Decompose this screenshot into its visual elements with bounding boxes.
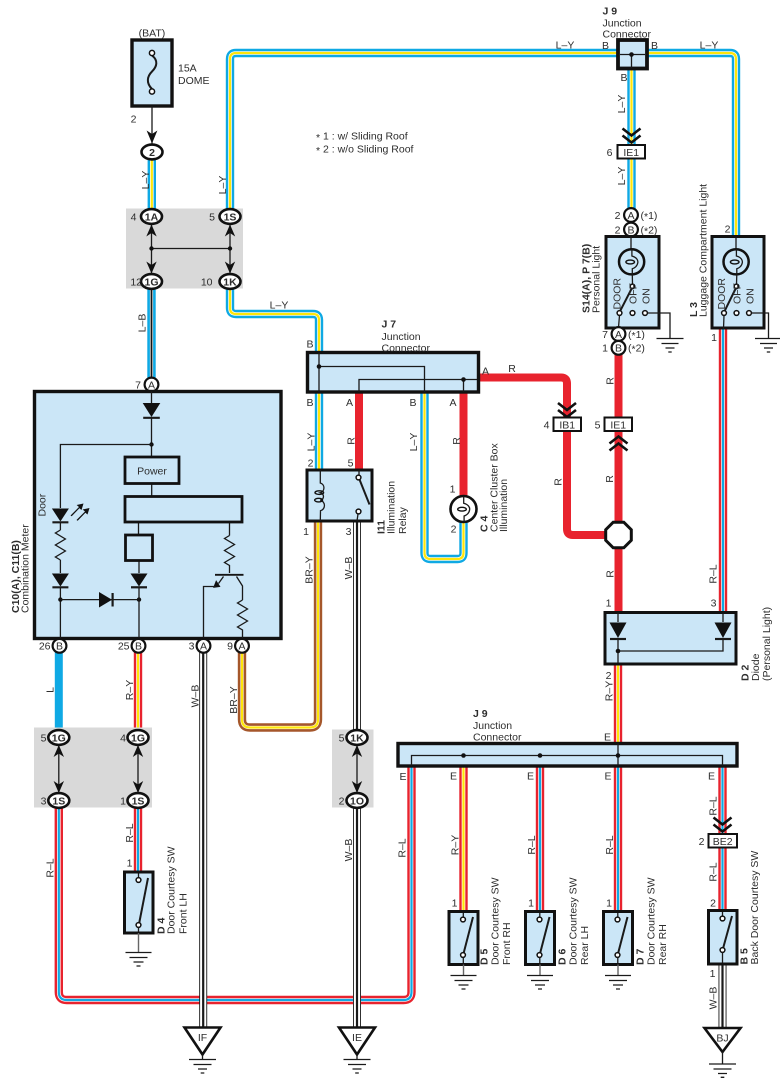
illumination relay I11 box	[307, 470, 372, 521]
wire R-L J9 E to BE2	[722, 765, 724, 834]
svg-text:J 9: J 9	[473, 708, 488, 720]
connector block gray 1A/1S/1G/1K	[126, 209, 243, 289]
svg-text:L–Y: L–Y	[556, 40, 575, 52]
svg-text:(*1): (*1)	[641, 210, 658, 223]
personal light S14 box	[606, 237, 670, 339]
svg-text:* 2 : w/o Sliding Roof: * 2 : w/o Sliding Roof	[316, 144, 414, 158]
svg-text:7: 7	[602, 329, 608, 341]
wire R-L BE2 to B5	[722, 846, 724, 911]
svg-text:1S: 1S	[52, 795, 65, 807]
svg-text:R–Y: R–Y	[124, 680, 136, 700]
WIRES-LAYER	[59, 53, 736, 1028]
svg-text:A: A	[449, 397, 456, 409]
svg-text:A: A	[627, 210, 634, 222]
svg-text:4: 4	[131, 211, 137, 223]
svg-text:5: 5	[339, 732, 345, 744]
ground triangle IF	[185, 1028, 221, 1074]
svg-text:6: 6	[607, 147, 613, 159]
svg-text:R–L: R–L	[708, 862, 720, 881]
terminal 26B meter	[53, 639, 67, 653]
wire R octagon to diode D2 pin1	[618, 547, 620, 613]
svg-text:(*2): (*2)	[641, 224, 658, 237]
svg-text:Combination Meter: Combination Meter	[20, 524, 32, 613]
wire R J7 A to IB1	[480, 378, 567, 419]
svg-text:B: B	[306, 339, 313, 351]
door courtesy switch D5	[449, 912, 478, 990]
terminal 1 1S block2	[128, 793, 149, 808]
terminal 7A personal light	[612, 327, 626, 341]
combination meter box C10 C11	[35, 392, 282, 640]
chevron up below IE1 mid	[610, 437, 628, 451]
connector IE1 top	[618, 145, 646, 159]
terminal 1B personal light	[612, 341, 626, 355]
svg-text:Door: Door	[37, 493, 49, 516]
svg-text:1K: 1K	[350, 732, 364, 744]
svg-text:B: B	[306, 397, 313, 409]
svg-text:R–L: R–L	[124, 823, 136, 842]
svg-text:R–L: R–L	[604, 835, 616, 854]
terminal 3A meter	[197, 639, 211, 653]
svg-text:E: E	[604, 771, 611, 783]
terminal 5 1G block2	[48, 730, 69, 745]
svg-text:1K: 1K	[223, 276, 237, 288]
svg-text:A: A	[148, 379, 155, 391]
terminal 7A meter	[145, 378, 159, 392]
svg-text:1: 1	[710, 968, 716, 980]
wire L-Y J9 down to IE1	[631, 68, 633, 145]
junction connector J7 box	[308, 353, 479, 393]
terminal 25B meter	[132, 639, 146, 653]
svg-text:12: 12	[130, 276, 142, 288]
svg-text:2: 2	[725, 224, 731, 236]
svg-text:R: R	[605, 377, 617, 385]
svg-text:B: B	[409, 397, 416, 409]
svg-text:Connector: Connector	[382, 343, 431, 355]
svg-text:W–B: W–B	[190, 685, 202, 708]
terminal 5 1K block3	[347, 730, 368, 745]
svg-text:Power: Power	[137, 466, 167, 478]
svg-text:B: B	[651, 40, 658, 52]
svg-text:1: 1	[303, 526, 309, 538]
svg-text:J 9: J 9	[603, 6, 618, 18]
svg-text:IB1: IB1	[559, 419, 575, 431]
svg-text:OFF: OFF	[732, 283, 744, 304]
svg-text:L–Y: L–Y	[616, 95, 628, 114]
svg-text:R: R	[553, 478, 565, 486]
svg-text:2: 2	[699, 836, 705, 848]
svg-text:26: 26	[39, 641, 51, 653]
wire L-Y fuse to 1A	[151, 159, 153, 211]
terminal 5 1S	[220, 209, 241, 224]
svg-text:Illumination: Illumination	[386, 481, 398, 534]
svg-text:5: 5	[209, 211, 215, 223]
terminal 3 1S block2	[48, 793, 69, 808]
svg-text:A: A	[200, 641, 207, 653]
wire R-Y J9 E to D5	[463, 765, 465, 912]
svg-text:B: B	[56, 641, 63, 653]
svg-text:2: 2	[615, 224, 621, 236]
svg-text:L–B: L–B	[137, 314, 149, 333]
svg-text:L–Y: L–Y	[140, 171, 152, 190]
ground luggage light	[755, 339, 780, 353]
svg-text:Door Courtesy SW: Door Courtesy SW	[490, 877, 502, 965]
terminal 2B personal light	[624, 223, 638, 237]
door courtesy switch D6	[526, 912, 555, 990]
svg-text:W–B: W–B	[708, 987, 720, 1010]
svg-text:BR–Y: BR–Y	[304, 556, 316, 583]
svg-text:ON: ON	[641, 288, 653, 304]
svg-text:(BAT): (BAT)	[139, 28, 166, 40]
svg-text:(*2): (*2)	[628, 343, 645, 356]
svg-text:Personal Light: Personal Light	[591, 246, 603, 313]
svg-text:2: 2	[710, 898, 716, 910]
svg-text:L: L	[45, 687, 57, 693]
octagon splice	[606, 522, 632, 548]
wire R-L 1S left column to J9 E1	[59, 765, 412, 1000]
svg-text:2: 2	[131, 114, 137, 126]
ground personal light	[657, 339, 684, 353]
back door courtesy switch B5	[709, 911, 738, 965]
svg-text:15A: 15A	[178, 63, 197, 75]
LED arrows door lamp	[71, 504, 84, 517]
svg-text:R–L: R–L	[397, 838, 409, 857]
svg-text:E: E	[527, 771, 534, 783]
svg-text:1: 1	[606, 598, 612, 610]
svg-text:3: 3	[189, 641, 195, 653]
connector IB1	[554, 418, 582, 432]
svg-text:1G: 1G	[52, 732, 66, 744]
svg-text:1: 1	[602, 343, 608, 355]
svg-text:4: 4	[120, 732, 126, 744]
wire L-Y IE1 to personal light	[631, 158, 633, 209]
wire R IE1 mid to octagon	[618, 430, 620, 523]
svg-text:(*1): (*1)	[628, 329, 645, 342]
svg-text:2: 2	[308, 458, 314, 470]
svg-text:DOOR: DOOR	[612, 278, 624, 310]
terminal 12 1G	[141, 274, 162, 289]
chevron into IE1 top	[623, 129, 641, 143]
svg-text:IE1: IE1	[623, 147, 639, 159]
diode block D2	[605, 613, 736, 665]
svg-text:R–L: R–L	[526, 835, 538, 854]
wire W-B B5 to ground BJ	[722, 963, 724, 1028]
wire W-B relay pin3 to 1K	[356, 521, 358, 731]
svg-text:R–Y: R–Y	[450, 835, 462, 855]
svg-text:1: 1	[452, 898, 458, 910]
ground triangle BJ	[705, 1028, 741, 1077]
svg-text:1: 1	[127, 858, 133, 870]
svg-text:Illumination: Illumination	[498, 479, 510, 532]
svg-text:R: R	[346, 437, 358, 445]
connector IE1 mid	[605, 418, 633, 432]
svg-text:5: 5	[595, 419, 601, 431]
svg-text:2: 2	[149, 147, 155, 159]
svg-text:A: A	[346, 397, 353, 409]
svg-text:Door Courtesy SW: Door Courtesy SW	[166, 846, 178, 934]
svg-text:(Personal Light): (Personal Light)	[761, 607, 773, 681]
svg-text:1: 1	[450, 484, 456, 496]
center cluster box lamp C4	[451, 496, 477, 522]
terminal 10 1K	[220, 274, 241, 289]
svg-text:IF: IF	[198, 1032, 207, 1044]
junction connector J9 top square	[618, 40, 647, 69]
svg-text:R–Y: R–Y	[604, 681, 616, 701]
svg-text:1S: 1S	[132, 795, 145, 807]
svg-text:R: R	[605, 570, 617, 578]
svg-text:B: B	[615, 343, 622, 355]
svg-text:Front LH: Front LH	[178, 893, 190, 934]
svg-text:E: E	[399, 771, 406, 783]
wire L-Y J7 B to relay pin2	[318, 391, 320, 470]
svg-text:A: A	[615, 329, 622, 341]
svg-text:4: 4	[544, 419, 550, 431]
svg-text:Door Courtesy SW: Door Courtesy SW	[646, 877, 658, 965]
svg-text:Connector: Connector	[473, 732, 522, 744]
connector block gray 1K/1O mid	[332, 730, 374, 808]
svg-text:E: E	[708, 771, 715, 783]
svg-text:L–Y: L–Y	[616, 167, 628, 186]
svg-text:25: 25	[118, 641, 130, 653]
wire L meter 26B to 1G	[58, 652, 60, 731]
svg-text:2: 2	[606, 670, 612, 682]
svg-text:7: 7	[135, 379, 141, 391]
svg-text:Rear LH: Rear LH	[579, 926, 591, 965]
small box	[126, 535, 153, 561]
wire R-Y meter 25B to 1G	[137, 652, 139, 731]
wire L-Y J9 to luggage light L3	[647, 53, 736, 237]
svg-text:Connector: Connector	[603, 29, 652, 41]
wire R-Y D2 pin2 to J9 E	[617, 663, 619, 744]
svg-text:J 7: J 7	[382, 319, 397, 331]
svg-text:Rear RH: Rear RH	[657, 924, 669, 965]
wire R J7 A to C4 pin1	[463, 391, 465, 497]
wire R-L J9 E to D6	[539, 765, 541, 912]
wire R personal light B to IE1 mid	[618, 353, 620, 418]
svg-text:10: 10	[201, 276, 213, 288]
svg-text:IE1: IE1	[610, 419, 626, 431]
wire W-B 1O to ground IE	[356, 807, 358, 1029]
svg-text:L–Y: L–Y	[217, 176, 229, 195]
svg-text:1O: 1O	[350, 795, 364, 807]
wire L-Y J7 B to C4 pin2 loop	[425, 391, 464, 559]
svg-text:W–B: W–B	[343, 557, 355, 580]
svg-text:B: B	[602, 40, 609, 52]
svg-text:2: 2	[615, 210, 621, 222]
wire R-L luggage light to D2 pin3	[722, 329, 724, 613]
terminal 9A meter	[235, 639, 249, 653]
svg-text:1G: 1G	[144, 276, 158, 288]
svg-text:3: 3	[711, 598, 717, 610]
svg-text:9: 9	[227, 641, 233, 653]
luggage compartment light L3 box	[712, 237, 769, 339]
terminal 4 1A	[141, 209, 162, 224]
svg-text:Door Courtesy SW: Door Courtesy SW	[568, 877, 580, 965]
svg-text:5: 5	[348, 458, 354, 470]
wire L-Y 1K to J7	[230, 288, 319, 353]
svg-text:BJ: BJ	[716, 1033, 728, 1045]
svg-text:3: 3	[41, 795, 47, 807]
svg-text:Junction: Junction	[473, 720, 512, 732]
door courtesy switch D4	[125, 872, 154, 966]
svg-text:A: A	[238, 641, 245, 653]
svg-text:R: R	[451, 437, 463, 445]
svg-text:L–Y: L–Y	[270, 300, 289, 312]
logic wide box	[125, 497, 242, 523]
svg-text:* 1 : w/ Sliding Roof: * 1 : w/ Sliding Roof	[316, 131, 408, 145]
svg-text:B: B	[135, 641, 142, 653]
wire BR-Y meter 9A to relay pin1	[242, 521, 318, 728]
svg-text:L–Y: L–Y	[408, 433, 420, 452]
terminal 2A personal light	[624, 208, 638, 222]
svg-text:E: E	[604, 732, 611, 744]
wire R-L 1S to door courtesy D4	[137, 807, 139, 873]
wire R-L J9 E to D7	[617, 765, 619, 912]
svg-text:R: R	[604, 475, 616, 483]
svg-text:A: A	[482, 366, 489, 378]
svg-text:L–Y: L–Y	[700, 40, 719, 52]
svg-text:L–Y: L–Y	[306, 433, 318, 452]
wire R J7 to relay pin5	[358, 391, 360, 470]
svg-text:DOOR: DOOR	[716, 278, 728, 310]
svg-text:R: R	[508, 363, 516, 375]
svg-text:R–L: R–L	[708, 564, 720, 583]
svg-text:IE: IE	[352, 1032, 362, 1044]
junction connector J9 lower box	[398, 744, 737, 767]
svg-text:OFF: OFF	[628, 283, 640, 304]
svg-text:BE2: BE2	[713, 836, 733, 848]
svg-text:1S: 1S	[224, 211, 237, 223]
svg-text:1A: 1A	[145, 211, 159, 223]
svg-text:1: 1	[606, 898, 612, 910]
Power box	[125, 457, 179, 484]
wire fuse output with arrow	[147, 106, 158, 146]
chevron into IB1	[558, 403, 576, 417]
terminal 4 1G block2	[128, 730, 149, 745]
svg-text:Front RH: Front RH	[501, 922, 513, 965]
terminal 2 1O block3	[347, 793, 368, 808]
connector block gray 1G/1S left	[34, 728, 152, 808]
svg-text:DOME: DOME	[178, 75, 210, 87]
door courtesy switch D7	[604, 912, 633, 990]
svg-text:1: 1	[120, 795, 126, 807]
svg-text:Back Door Courtesy SW: Back Door Courtesy SW	[749, 851, 761, 965]
svg-text:Relay: Relay	[397, 506, 409, 534]
svg-text:5: 5	[41, 732, 47, 744]
svg-text:1: 1	[528, 898, 534, 910]
svg-text:B: B	[627, 224, 634, 236]
svg-text:R–L: R–L	[708, 796, 720, 815]
svg-text:W–B: W–B	[343, 839, 355, 862]
svg-text:2: 2	[339, 795, 345, 807]
svg-text:ON: ON	[745, 288, 757, 304]
svg-text:R–L: R–L	[45, 858, 57, 877]
svg-text:BR–Y: BR–Y	[228, 686, 240, 713]
chevron into BE2	[714, 818, 732, 832]
svg-text:3: 3	[346, 526, 352, 538]
connector ellipse 2	[142, 145, 163, 160]
svg-text:1: 1	[711, 332, 717, 344]
fuse 15A DOME	[132, 40, 172, 106]
ground triangle IE	[339, 1028, 375, 1074]
wire R IB1 to octagon splice	[567, 430, 607, 535]
svg-text:1G: 1G	[131, 732, 145, 744]
svg-text:2: 2	[451, 524, 457, 536]
wire L-B 1G to meter pin 7A	[151, 288, 153, 379]
svg-text:Luggage Compartment Light: Luggage Compartment Light	[698, 184, 710, 317]
svg-text:E: E	[450, 771, 457, 783]
svg-text:B: B	[620, 72, 627, 84]
svg-text:Junction: Junction	[382, 331, 421, 343]
wire L-Y 1S up across top to J9	[230, 53, 618, 211]
connector BE2	[709, 834, 738, 848]
wire W-B meter 3A to ground IF	[202, 652, 204, 1028]
